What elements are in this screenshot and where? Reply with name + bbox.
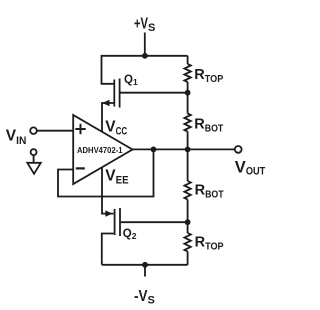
- svg-text:ADHV4702-1: ADHV4702-1: [77, 146, 123, 155]
